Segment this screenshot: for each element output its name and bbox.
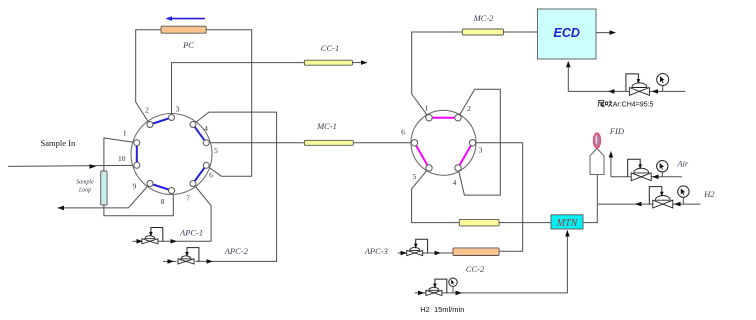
svg-text:APC-3: APC-3 [364, 246, 388, 256]
svg-text:2: 2 [145, 106, 149, 115]
svg-text:9: 9 [133, 181, 137, 190]
svg-text:FID: FID [609, 126, 625, 136]
svg-text:5: 5 [214, 146, 218, 155]
svg-text:4: 4 [453, 178, 457, 187]
svg-text:Sample In: Sample In [41, 138, 76, 148]
svg-text:6: 6 [209, 171, 213, 180]
svg-text:4: 4 [204, 124, 208, 133]
svg-text:Loop: Loop [78, 187, 91, 193]
svg-text:MC-1: MC-1 [316, 121, 337, 131]
svg-text:5: 5 [413, 172, 417, 181]
svg-text:6: 6 [401, 128, 405, 137]
svg-text:10: 10 [118, 154, 126, 163]
svg-text:1: 1 [123, 129, 127, 138]
svg-text:3: 3 [176, 105, 180, 114]
svg-text:2: 2 [467, 104, 471, 113]
svg-text:MTN: MTN [556, 218, 579, 229]
svg-text:7: 7 [186, 194, 190, 203]
svg-text:Air: Air [676, 159, 689, 169]
svg-text:3: 3 [479, 146, 483, 155]
svg-text:PC: PC [182, 40, 194, 50]
svg-text:Ar:CH4=95:5: Ar:CH4=95:5 [613, 101, 654, 108]
svg-text:H2: H2 [703, 189, 715, 199]
svg-text:Sample: Sample [76, 179, 94, 185]
svg-text:MC-2: MC-2 [473, 13, 495, 23]
svg-text:1: 1 [425, 104, 429, 113]
svg-text:APC-2: APC-2 [224, 246, 249, 256]
svg-text:CC-2: CC-2 [466, 264, 485, 274]
svg-text:CC-1: CC-1 [321, 43, 339, 53]
svg-text:8: 8 [161, 197, 165, 206]
svg-text:ECD: ECD [553, 26, 579, 40]
svg-text:H2 15ml/min: H2 15ml/min [420, 305, 464, 314]
svg-text:APC-1: APC-1 [179, 227, 203, 237]
